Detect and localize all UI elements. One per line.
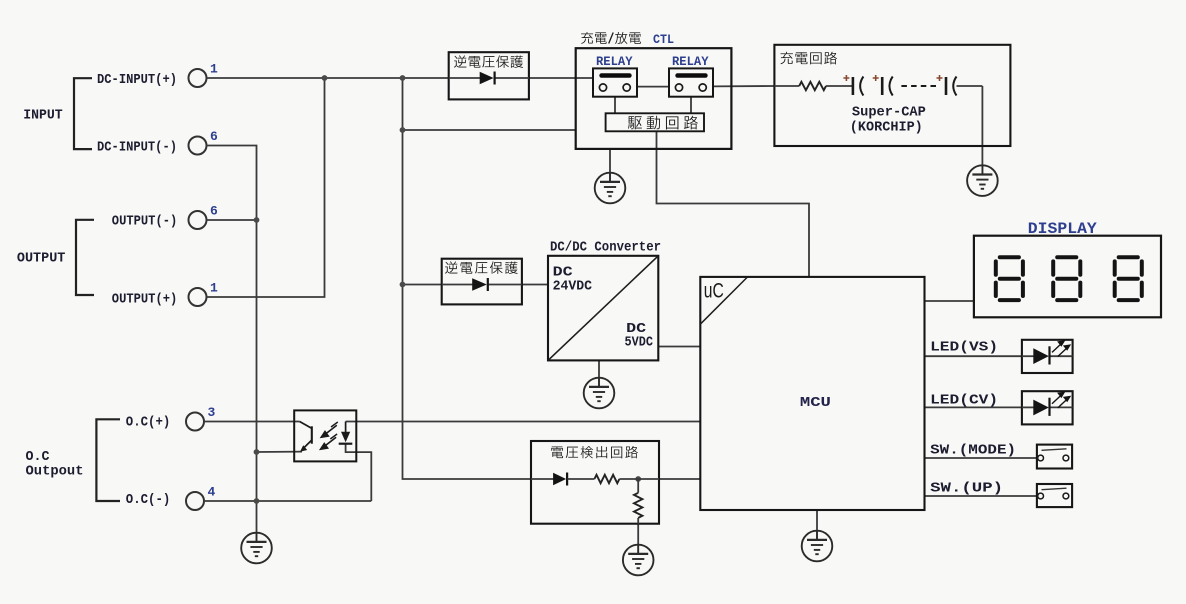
capacitor C3 super-cap	[937, 75, 957, 96]
wire relay2 coil stem	[690, 97, 692, 114]
svg-text:DC: DC	[553, 266, 573, 281]
wire opto emitter to trunk	[257, 451, 303, 453]
resistor divider shunt	[634, 493, 642, 518]
svg-text:uC: uC	[704, 279, 724, 303]
svg-text:O.C: O.C	[26, 450, 50, 465]
wire MCU to LED(VS)	[925, 355, 1022, 357]
svg-text:Outpout: Outpout	[26, 465, 84, 480]
svg-text:1: 1	[210, 281, 218, 296]
switch MODE	[1037, 445, 1072, 469]
svg-text:RELAY: RELAY	[672, 55, 709, 69]
wire box edge to diode D3	[531, 478, 554, 480]
ground CTL	[595, 173, 626, 204]
bracket OUTPUT	[76, 220, 94, 295]
wire through protection 2a	[442, 284, 474, 286]
wire MCU to LED(CV)	[925, 406, 1022, 408]
capacitor C1 super-cap	[843, 75, 863, 96]
block reverse-voltage-protection 1	[449, 52, 529, 99]
junction DC-INPUT(+)/trunkA	[322, 75, 328, 81]
relay K2 coil bar	[675, 73, 707, 78]
svg-text:OUTPUT(+): OUTPUT(+)	[112, 293, 178, 308]
capacitor C2 super-cap	[873, 75, 893, 96]
ground trunk C	[241, 533, 272, 564]
junction trunkC/O.C(-)	[254, 498, 260, 504]
wire cap3 to corner	[957, 85, 983, 87]
wire MCU to display	[925, 300, 974, 302]
ground DC/DC	[584, 378, 615, 409]
junction trunkC/opto-emitter	[254, 449, 260, 455]
wire detection ground stem	[637, 524, 639, 554]
wire reverse-protection to relay1	[529, 77, 593, 79]
relay K2	[669, 68, 713, 96]
svg-text:O.C(-): O.C(-)	[126, 493, 171, 508]
label 充電/放電	[581, 32, 641, 44]
block charge/discharge CTL	[576, 48, 732, 149]
terminal O.C(-)	[186, 492, 204, 510]
svg-text:4: 4	[208, 485, 216, 500]
relay K2 contacts	[675, 84, 682, 91]
DC/DC diagonal	[548, 256, 658, 361]
wire O.C(+) into opto	[204, 421, 300, 423]
wire through LED VS box	[1022, 355, 1034, 357]
block drive circuit	[606, 113, 704, 131]
label 逆電圧保護 2	[445, 261, 518, 273]
wire ground trunk C	[256, 220, 258, 542]
svg-text:6: 6	[210, 204, 218, 219]
wire CTL ground stem	[609, 149, 611, 182]
opto phototransistor	[300, 422, 312, 449]
display bezel	[974, 236, 1161, 318]
block reverse-voltage-protection 2	[442, 259, 522, 305]
wire through protection 1b	[495, 77, 529, 79]
label 駆動回路	[628, 116, 698, 130]
wire MCU to SW(UP)	[925, 495, 1037, 497]
label 逆電圧保護 1	[454, 55, 523, 67]
wire LED CV bar to edge	[1050, 406, 1073, 408]
wire shunt to box edge	[637, 518, 639, 524]
svg-text:Super-CAP: Super-CAP	[852, 104, 926, 120]
svg-text:DC/DC Converter: DC/DC Converter	[550, 240, 661, 256]
LED CV box	[1022, 391, 1073, 424]
relay K1 contacts	[599, 84, 606, 91]
wire relay1-relay2 link	[637, 86, 669, 88]
wire node to shunt	[637, 479, 639, 493]
wire DC/DC ground stem	[598, 360, 600, 387]
switch UP	[1037, 484, 1072, 507]
wire trunk B vertical	[403, 78, 532, 479]
wire DC/DC protection input	[403, 284, 442, 286]
wire relay1 coil stem	[614, 97, 616, 114]
svg-text:O.C(+): O.C(+)	[126, 416, 171, 431]
ground MCU	[802, 531, 833, 562]
block MCU	[700, 277, 924, 510]
svg-text:RELAY: RELAY	[596, 55, 633, 69]
ground detection	[623, 545, 654, 576]
ground charge circuit	[967, 165, 998, 196]
wire resistor to node	[619, 478, 638, 480]
diode D3 detection	[553, 473, 567, 486]
relay K1	[593, 68, 637, 96]
svg-text:(KORCHIP): (KORCHIP)	[850, 120, 923, 136]
svg-text:MCU: MCU	[800, 395, 831, 411]
switch MODE contacts	[1038, 455, 1044, 461]
wire through LED CV box	[1022, 406, 1034, 408]
opto LED (receiver side drawing)	[339, 422, 353, 444]
svg-text:LED(CV): LED(CV)	[930, 393, 998, 409]
svg-text:DC-INPUT(-): DC-INPUT(-)	[97, 141, 177, 156]
opto light arrows	[321, 422, 338, 449]
svg-text:24VDC: 24VDC	[553, 280, 593, 295]
terminal O.C(+)	[186, 413, 204, 431]
block charge circuit	[774, 45, 1010, 146]
wire CTL lower input	[403, 129, 576, 131]
resistor charge	[799, 82, 826, 90]
terminal DC-INPUT(-)	[189, 137, 207, 155]
LED VS box	[1022, 340, 1073, 373]
wire charge box edge to resistor	[774, 85, 799, 87]
dashed series continuation	[901, 85, 937, 87]
svg-text:OUTPUT: OUTPUT	[17, 251, 66, 267]
wire opto LED corner to MCU	[346, 421, 701, 423]
diode D1 reverse protection	[480, 72, 495, 85]
wire DC/DC output 5VDC to MCU	[658, 346, 700, 348]
wire through protection 1a	[449, 77, 481, 79]
wire drive circuit to MCU	[657, 131, 810, 277]
wire charge-circuit ground stem	[981, 86, 983, 175]
LED CV diode	[1033, 400, 1049, 416]
resistor detection series	[594, 475, 619, 483]
wire DC-INPUT(+) to reverse-protection	[207, 77, 449, 79]
svg-text:SW.(MODE): SW.(MODE)	[930, 443, 1016, 459]
switch MODE lever	[1042, 449, 1067, 451]
label 電圧検出回路	[551, 446, 638, 458]
terminal OUTPUT(-)	[189, 211, 207, 229]
uC corner diagonal	[700, 277, 747, 324]
wire OUTPUT(-) stub	[207, 219, 257, 221]
LED CV arrows	[1052, 393, 1070, 408]
block voltage detection	[531, 441, 659, 524]
7-segment digit 3	[1115, 257, 1142, 300]
relay K1 coil bar	[599, 73, 631, 78]
wire O.C(-) to cathode loop	[204, 500, 371, 502]
svg-text:3: 3	[208, 405, 216, 420]
svg-text:1: 1	[210, 62, 218, 77]
svg-text:INPUT: INPUT	[23, 108, 63, 124]
switch UP lever	[1042, 488, 1067, 490]
wire relay2 to charge circuit	[713, 85, 774, 87]
junction DC-INPUT(+)/trunkB	[400, 75, 406, 81]
svg-text:SW.(UP): SW.(UP)	[930, 481, 1003, 497]
optocoupler U1	[294, 410, 356, 461]
7-segment digit 1	[996, 257, 1023, 300]
wire MCU ground stem	[816, 510, 818, 540]
junction divider node	[635, 476, 641, 482]
label 充電回路	[780, 52, 837, 65]
wire diode to resistor	[568, 478, 595, 480]
block DC/DC converter	[548, 256, 658, 361]
wire DC-INPUT(-) jog	[207, 146, 257, 221]
wire protection2 to DC/DC	[522, 284, 548, 286]
bracket INPUT	[74, 78, 92, 149]
junction OUTPUT(-)/DC-INPUT(-)	[254, 217, 260, 223]
wire resistor to cap1	[826, 85, 853, 87]
bracket O.C Output	[96, 419, 120, 501]
junction trunkB/CTL-lower	[400, 127, 406, 133]
wire LED VS bar to edge	[1050, 355, 1073, 357]
wire detection out to MCU	[659, 478, 700, 480]
switch UP contacts	[1038, 493, 1044, 499]
svg-text:6: 6	[210, 129, 218, 144]
wire MCU to SW(MODE)	[925, 457, 1037, 459]
terminal OUTPUT(+)	[189, 288, 207, 306]
svg-text:LED(VS): LED(VS)	[930, 340, 998, 356]
7-segment digit 2	[1053, 257, 1080, 300]
wire opto LED cathode loop	[346, 444, 372, 501]
wire through protection 2b	[488, 284, 522, 286]
junction trunkB/DCDC-input	[400, 282, 406, 288]
svg-text:OUTPUT(-): OUTPUT(-)	[112, 215, 178, 230]
wire node to box right edge	[638, 478, 659, 480]
svg-text:5VDC: 5VDC	[625, 336, 654, 351]
LED VS diode	[1033, 348, 1049, 364]
svg-text:CTL: CTL	[653, 33, 674, 47]
wire trunk OUTPUT(+) tie	[207, 78, 325, 297]
svg-text:DC-INPUT(+): DC-INPUT(+)	[97, 73, 177, 88]
LED VS arrows	[1052, 341, 1070, 356]
terminal DC-INPUT(+)	[189, 69, 207, 87]
diode D2 reverse protection	[472, 278, 488, 291]
